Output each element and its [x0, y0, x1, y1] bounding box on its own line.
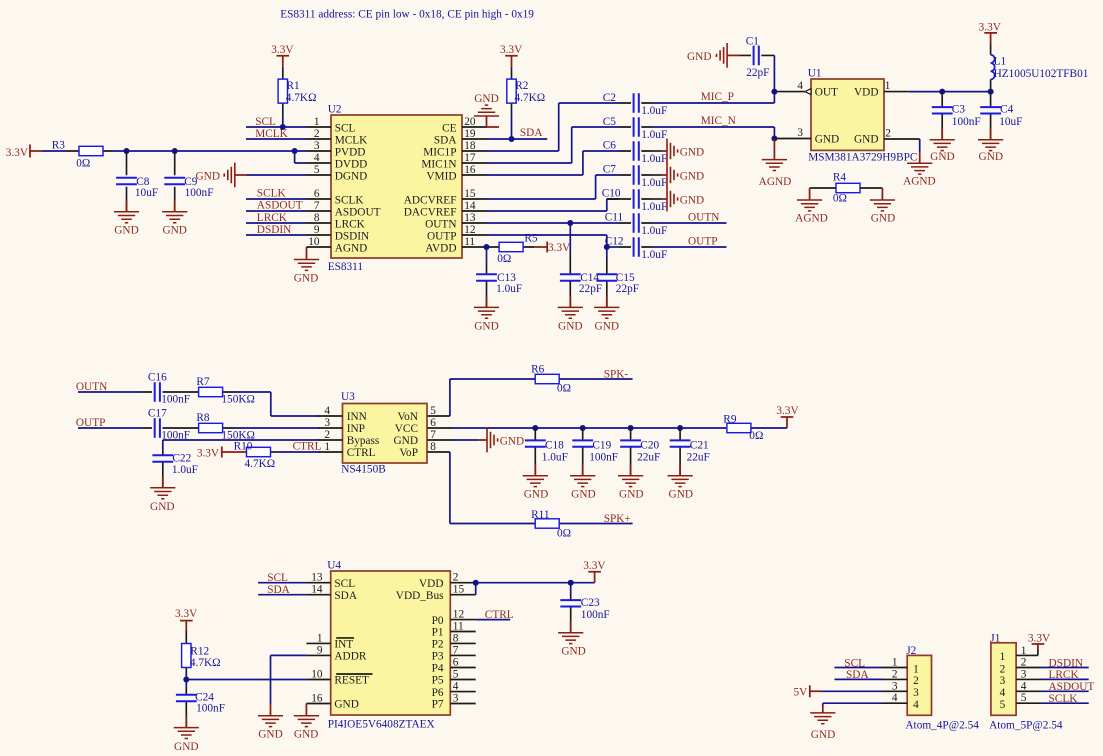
wire 3.3V rail to PVDD [112, 151, 307, 163]
net label SDA (U4) [267, 584, 290, 596]
svg-text:8: 8 [314, 212, 320, 224]
svg-text:1.0uF: 1.0uF [542, 451, 568, 463]
net label SPK+ [604, 513, 631, 525]
svg-text:4.7KΩ: 4.7KΩ [286, 92, 317, 104]
svg-text:3.3V: 3.3V [1028, 632, 1051, 644]
svg-text:GND: GND [595, 320, 619, 332]
wire RESET [186, 679, 306, 681]
svg-text:4.7KΩ: 4.7KΩ [190, 657, 221, 669]
power port 3.3V (R2) [500, 44, 523, 67]
svg-text:5: 5 [430, 405, 436, 417]
wire OUTP out [652, 246, 727, 248]
svg-text:6: 6 [430, 417, 436, 429]
svg-text:C22: C22 [172, 453, 191, 465]
svg-text:16: 16 [464, 164, 476, 176]
capacitor C11 1.0uF [605, 212, 668, 238]
junction MIC_P node [771, 89, 777, 95]
capacitor C19 100nF [572, 428, 618, 476]
net label DSDIN [257, 224, 292, 236]
svg-text:DACVREF: DACVREF [404, 206, 457, 218]
svg-text:6: 6 [453, 657, 459, 669]
svg-text:17: 17 [464, 152, 476, 164]
svg-text:GND: GND [162, 225, 186, 237]
svg-text:C4: C4 [1000, 103, 1014, 115]
net label SCLK [257, 187, 287, 199]
svg-text:VDD: VDD [854, 87, 878, 99]
svg-text:OUT: OUT [815, 87, 838, 99]
svg-text:OUTP: OUTP [427, 230, 457, 242]
svg-text:0Ω: 0Ω [76, 158, 90, 170]
svg-text:U3: U3 [341, 391, 355, 403]
wire LRCK [246, 222, 307, 224]
J1 inside pin numbers [1000, 651, 1006, 711]
svg-text:CTRL: CTRL [293, 440, 322, 452]
svg-text:5: 5 [314, 164, 320, 176]
svg-text:8: 8 [453, 632, 459, 644]
resistor R6 0ohm [531, 364, 571, 395]
svg-text:GND: GND [619, 489, 643, 501]
svg-text:1.0uF: 1.0uF [172, 464, 198, 476]
U4 left pin stubs [306, 583, 330, 704]
wire OUTN (pin13) [487, 222, 620, 224]
svg-text:4: 4 [1000, 687, 1006, 699]
wire VMID riser [487, 151, 620, 175]
svg-text:GND: GND [930, 151, 954, 163]
wire DSDIN [1042, 667, 1089, 669]
power port GND sideways (C7) [652, 163, 705, 188]
svg-text:R11: R11 [531, 509, 549, 521]
svg-text:0Ω: 0Ω [557, 527, 571, 539]
svg-text:GND: GND [669, 489, 693, 501]
svg-text:C19: C19 [592, 439, 611, 451]
wire SDA (J2) [835, 678, 883, 680]
U3 left pin numbers [324, 405, 330, 453]
svg-text:GND: GND [294, 729, 318, 741]
svg-text:22pF: 22pF [616, 283, 639, 295]
resistor R10 4.7K [234, 440, 278, 470]
net label OUTN (lower) [76, 381, 107, 393]
svg-text:100nF: 100nF [589, 451, 618, 463]
ground GND (C9) [162, 201, 187, 237]
svg-text:3.3V: 3.3V [197, 447, 220, 459]
ground GND (R4 right) [870, 188, 895, 225]
transistor U1 MSM381 body [808, 68, 918, 164]
capacitor C10 1.0uF [602, 188, 668, 214]
svg-text:22uF: 22uF [637, 451, 660, 463]
svg-text:GND: GND [294, 272, 318, 284]
svg-text:15: 15 [453, 584, 465, 596]
wire CTRL to U3 [278, 451, 320, 453]
junction VDD_Bus [473, 580, 479, 586]
svg-text:CE: CE [442, 122, 457, 134]
U3 right pin numbers [430, 405, 436, 453]
power port 3.3V (J1) [1028, 632, 1051, 655]
ground GND (C20) [618, 465, 644, 501]
wire MIC1N riser [487, 127, 620, 163]
net label MIC_P [701, 91, 734, 103]
ground AGND (U1 pin2) [903, 139, 936, 187]
svg-text:100nF: 100nF [196, 702, 225, 714]
svg-text:3: 3 [1000, 675, 1006, 687]
svg-text:3: 3 [314, 140, 320, 152]
capacitor C20 22uF [620, 428, 660, 476]
svg-text:DVDD: DVDD [335, 158, 368, 170]
resistor R3 [42, 140, 112, 170]
op-amp U3 NS4150B body [341, 391, 427, 475]
wire ASDOUT [246, 210, 307, 212]
svg-text:10uF: 10uF [135, 187, 158, 199]
svg-text:GND: GND [687, 51, 711, 63]
svg-text:NS4150B: NS4150B [341, 463, 386, 475]
junction RESET-C24 [183, 677, 189, 683]
svg-text:4: 4 [1021, 680, 1027, 692]
wire VDD_Bus link [475, 583, 477, 595]
resistor R9 0ohm [723, 413, 787, 442]
svg-text:GND: GND [524, 489, 548, 501]
svg-text:12: 12 [464, 224, 476, 236]
svg-text:3: 3 [797, 127, 803, 139]
U3 right pin stubs [428, 416, 453, 452]
svg-text:AGND: AGND [759, 176, 792, 188]
svg-text:C1: C1 [746, 35, 759, 47]
power port GND sideways (C1) [687, 43, 739, 68]
svg-text:18: 18 [464, 140, 476, 152]
svg-text:1.0uF: 1.0uF [641, 249, 667, 261]
svg-text:VoN: VoN [397, 411, 418, 423]
connector J2 body [905, 645, 979, 732]
svg-text:13: 13 [464, 212, 476, 224]
svg-text:13: 13 [311, 572, 323, 584]
svg-text:PVDD: PVDD [335, 146, 366, 158]
power port GND sideways (C6) [652, 139, 705, 164]
wire C1 to MIC_P node [773, 55, 775, 103]
wire MIC_N [652, 127, 775, 139]
ground GND (C4) [978, 129, 1003, 163]
resistor R1 4.7K [278, 67, 316, 127]
svg-text:4: 4 [324, 405, 330, 417]
svg-text:LRCK: LRCK [335, 218, 366, 230]
svg-text:GND: GND [979, 151, 1003, 163]
svg-text:GND: GND [114, 225, 138, 237]
svg-text:Atom_5P@2.54: Atom_5P@2.54 [989, 720, 1063, 732]
svg-text:14: 14 [311, 584, 323, 596]
svg-text:4: 4 [797, 80, 803, 92]
U3 right pin names [394, 411, 418, 459]
power port 3.3V (R10) [197, 447, 246, 460]
svg-text:INN: INN [347, 411, 367, 423]
junction VDD-C23 [568, 580, 574, 586]
svg-text:7: 7 [430, 429, 436, 441]
wire ADCVREF riser [487, 175, 620, 199]
svg-text:DSDIN: DSDIN [335, 230, 370, 242]
wire SCLK [246, 198, 307, 200]
svg-text:2: 2 [453, 572, 459, 584]
wire DGND [247, 174, 307, 176]
svg-text:2: 2 [885, 128, 891, 140]
capacitor C24 100nF [176, 680, 225, 728]
svg-text:1.0uF: 1.0uF [641, 129, 667, 141]
svg-text:1: 1 [324, 441, 330, 453]
svg-text:3: 3 [1021, 668, 1027, 680]
svg-text:P2: P2 [432, 639, 444, 651]
svg-text:9: 9 [314, 224, 320, 236]
net label LRCK [1049, 669, 1080, 681]
ground GND (C23) [558, 622, 586, 658]
svg-text:J2: J2 [906, 645, 916, 657]
junction VCC-C21 [677, 425, 683, 431]
svg-text:VMID: VMID [426, 170, 456, 182]
svg-text:C23: C23 [581, 597, 600, 609]
wire VoN to R6 [450, 379, 535, 416]
ground GND (C13) [474, 296, 499, 332]
svg-text:1: 1 [892, 657, 898, 669]
net label SCL (U4) [267, 572, 288, 584]
svg-text:MSM381A3729H9BPC: MSM381A3729H9BPC [808, 152, 917, 164]
wire DACVREF riser [487, 199, 620, 211]
svg-text:1: 1 [314, 116, 320, 128]
net label ASDOUT [1049, 681, 1095, 693]
power port 3.3V (L1) [979, 21, 1002, 43]
svg-text:R1: R1 [287, 80, 300, 92]
svg-text:GND: GND [815, 134, 839, 146]
capacitor C15 22pF [596, 247, 639, 307]
svg-text:7: 7 [314, 200, 320, 212]
U2 left pin stubs 1-10 [307, 127, 332, 247]
net label DSDIN [1049, 657, 1084, 669]
junction VCC-C20 [628, 425, 634, 431]
svg-text:3.3V: 3.3V [175, 608, 198, 620]
svg-text:15: 15 [464, 188, 476, 200]
svg-text:RESET: RESET [334, 675, 369, 687]
svg-text:R2: R2 [515, 80, 529, 92]
svg-text:R3: R3 [52, 140, 66, 152]
svg-text:GND: GND [394, 435, 418, 447]
svg-text:GND: GND [871, 213, 895, 225]
wire MIC1P riser [487, 103, 620, 151]
svg-text:DGND: DGND [335, 170, 368, 182]
wire SCLK (J1) [1042, 702, 1089, 704]
resistor R5 0ohm [487, 233, 538, 265]
resistor R11 0ohm [531, 509, 571, 539]
net label MCLK [255, 128, 288, 140]
net label OUTP (C12) [688, 236, 718, 248]
svg-text:0Ω: 0Ω [749, 430, 763, 442]
svg-text:16: 16 [311, 693, 323, 705]
svg-text:10uF: 10uF [999, 116, 1022, 128]
junction SDA-R2 [509, 136, 515, 142]
svg-text:150KΩ: 150KΩ [221, 394, 255, 406]
ground GND (ADDR) [258, 704, 283, 741]
capacitor C4 10uF [980, 92, 1022, 140]
J2 pin numbers [892, 657, 898, 705]
ground AGND (U1 pin3) [759, 139, 792, 189]
svg-text:SDA: SDA [434, 134, 457, 146]
svg-text:8: 8 [430, 441, 436, 453]
svg-text:3: 3 [892, 680, 898, 692]
svg-text:C5: C5 [603, 116, 617, 128]
svg-text:3.3V: 3.3V [583, 560, 606, 572]
svg-text:22pF: 22pF [746, 67, 769, 79]
svg-text:VoP: VoP [399, 447, 418, 459]
power port GND sideways (U3 pin7) [453, 428, 525, 453]
svg-text:GND: GND [474, 320, 498, 332]
svg-text:CTRL: CTRL [347, 447, 376, 459]
power port 3.3V (left rail) [6, 145, 42, 159]
svg-text:3: 3 [913, 687, 919, 699]
op-amp U4 PI4IOE body [327, 560, 450, 731]
svg-text:4.7KΩ: 4.7KΩ [245, 458, 276, 470]
capacitor C8 10uF [116, 151, 158, 212]
U1 pin 2 stub [884, 128, 920, 140]
wire CTRL (U4) [476, 619, 511, 621]
U1 pin 3 stub [774, 127, 811, 139]
svg-text:P5: P5 [432, 675, 444, 687]
svg-text:4.7KΩ: 4.7KΩ [515, 92, 546, 104]
capacitor C7 1.0uF [603, 164, 668, 190]
power port 3.3V (R12) [175, 608, 198, 630]
svg-text:3.3V: 3.3V [500, 44, 523, 56]
junction rail-DVDD [292, 148, 298, 154]
wire OUTP (pin12) drop [487, 235, 607, 247]
U1 pin names [815, 87, 879, 146]
svg-text:2: 2 [1000, 663, 1006, 675]
svg-text:R5: R5 [524, 233, 538, 245]
net label CTRL (U4) [485, 609, 514, 621]
net label ASDOUT [257, 200, 303, 212]
net label LRCK [257, 212, 288, 224]
svg-text:C11: C11 [605, 212, 623, 224]
svg-text:GND: GND [474, 93, 498, 105]
svg-text:C20: C20 [640, 439, 659, 451]
wire VCC rail [453, 427, 727, 429]
svg-text:GND: GND [811, 729, 835, 741]
svg-text:10: 10 [308, 236, 320, 248]
net label OUTN (C11) [688, 212, 719, 224]
junction SCL-R1 [280, 124, 286, 130]
svg-text:VDD: VDD [419, 578, 443, 590]
capacitor C3 100nF [932, 92, 981, 140]
junction VCC-C19 [580, 425, 586, 431]
U2 right pin names [404, 122, 458, 254]
capacitor C2 1.0uF [603, 92, 668, 117]
svg-text:HZ1005U102TFB01: HZ1005U102TFB01 [994, 68, 1089, 80]
wire MCLK [246, 138, 307, 140]
svg-text:R4: R4 [833, 171, 847, 183]
svg-text:1: 1 [913, 663, 919, 675]
svg-text:C6: C6 [603, 140, 617, 152]
power port 3.3V (R5) [534, 242, 571, 255]
svg-text:C10: C10 [602, 188, 621, 200]
junction MIC_N node [771, 136, 777, 142]
svg-text:U2: U2 [328, 104, 342, 116]
svg-text:R6: R6 [531, 364, 545, 376]
svg-text:AGND: AGND [335, 242, 368, 254]
svg-text:1.0uF: 1.0uF [496, 283, 522, 295]
svg-text:3.3V: 3.3V [776, 405, 799, 417]
capacitor C13 1.0uF [476, 247, 522, 307]
svg-text:7: 7 [453, 644, 459, 656]
svg-text:ADCVREF: ADCVREF [404, 194, 457, 206]
svg-text:GND: GND [680, 194, 704, 206]
wire SDA (U4) [258, 594, 306, 596]
svg-text:1.0uF: 1.0uF [641, 153, 667, 165]
svg-text:ASDOUT: ASDOUT [335, 206, 381, 218]
svg-text:100nF: 100nF [161, 394, 190, 406]
wire OUTN out [652, 222, 727, 224]
svg-text:R9: R9 [723, 413, 737, 425]
svg-text:5: 5 [1000, 699, 1006, 711]
svg-text:1.0uF: 1.0uF [641, 225, 667, 237]
inductor L1 [991, 44, 1089, 92]
svg-text:2: 2 [324, 429, 330, 441]
U4 right pin names [396, 578, 444, 711]
power port GND sideways (DGND pin5) [196, 163, 247, 188]
svg-text:LRCK: LRCK [257, 212, 288, 224]
svg-text:3.3V: 3.3V [271, 44, 294, 56]
net label SCL (J2) [844, 657, 865, 669]
resistor R4 0ohm [810, 171, 883, 204]
capacitor C9 100nF [164, 151, 213, 212]
U3 left pin stubs [319, 416, 343, 452]
svg-text:MIC1N: MIC1N [421, 158, 456, 170]
svg-text:PI4IOE5V6408ZTAEX: PI4IOE5V6408ZTAEX [328, 719, 435, 731]
power port 3.3V (R9) [776, 405, 799, 428]
svg-text:MCLK: MCLK [335, 134, 368, 146]
svg-text:4: 4 [314, 152, 320, 164]
capacitor C18 1.0uF [525, 428, 568, 476]
svg-text:P1: P1 [432, 627, 444, 639]
svg-text:2: 2 [892, 668, 898, 680]
net label SDA [520, 127, 543, 139]
svg-text:10: 10 [311, 669, 323, 681]
svg-text:Bypass: Bypass [347, 435, 380, 447]
U4 right pin numbers [453, 572, 465, 705]
svg-text:100nF: 100nF [185, 187, 214, 199]
wire SPK+ [560, 523, 633, 525]
U4 left pin names [334, 578, 369, 711]
svg-text:1.0uF: 1.0uF [641, 177, 667, 189]
svg-text:19: 19 [464, 128, 476, 140]
svg-text:C17: C17 [148, 407, 167, 419]
J1 pin numbers [1021, 645, 1027, 704]
ground GND (C8) [114, 201, 139, 237]
svg-text:P0: P0 [432, 615, 444, 627]
svg-text:GND: GND [561, 646, 585, 658]
capacitor C5 1.0uF [603, 116, 668, 141]
svg-text:22pF: 22pF [579, 283, 602, 295]
svg-text:11: 11 [453, 621, 464, 633]
svg-text:C7: C7 [603, 164, 617, 176]
svg-text:GND: GND [334, 699, 358, 711]
svg-text:GND: GND [500, 435, 524, 447]
J2 pin stubs [882, 668, 907, 704]
svg-text:SCLK: SCLK [335, 194, 365, 206]
capacitor C14 22pF [560, 223, 602, 307]
svg-text:SCLK: SCLK [257, 187, 287, 199]
wire SCL [246, 126, 307, 128]
svg-text:C3: C3 [952, 103, 966, 115]
svg-text:Atom_4P@2.54: Atom_4P@2.54 [905, 720, 979, 732]
wire SCL (U4) [258, 582, 306, 584]
svg-text:U4: U4 [327, 560, 341, 572]
U1 pin 4 stub with clock mark [774, 80, 811, 94]
svg-text:100nF: 100nF [581, 609, 610, 621]
svg-text:12: 12 [453, 609, 465, 621]
svg-text:4: 4 [913, 699, 919, 711]
svg-text:P6: P6 [432, 687, 444, 699]
net label SCL [255, 116, 276, 128]
wire SDA [487, 138, 548, 140]
